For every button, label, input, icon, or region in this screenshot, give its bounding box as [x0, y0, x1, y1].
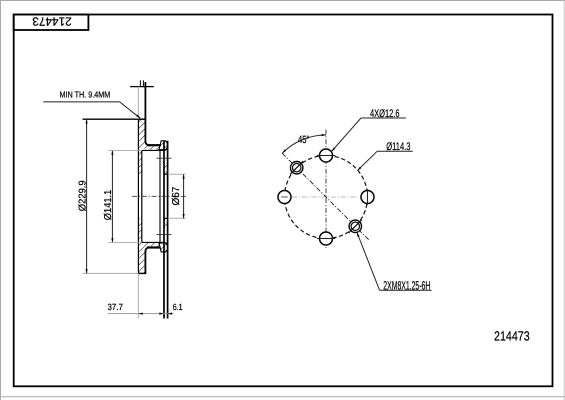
svg-text:214473: 214473	[494, 328, 530, 343]
svg-text:MIN TH. 9.4MM: MIN TH. 9.4MM	[60, 90, 111, 100]
threaded hole upper-left	[291, 162, 303, 174]
MIN TH leader	[43, 102, 140, 118]
threaded hole lower-right	[349, 220, 361, 232]
hat outer wall bottom	[147, 246, 161, 248]
extension gray bottom	[137, 273, 139, 318]
45 deg arc	[282, 135, 326, 153]
label dia 114.3	[377, 150, 413, 152]
outboard friction face	[137, 119, 139, 273]
bore top edge	[163, 173, 168, 175]
flange inner thick line	[163, 142, 165, 319]
svg-text:4XØ12.6: 4XØ12.6	[370, 108, 400, 120]
svg-text:6.1: 6.1	[173, 302, 183, 312]
svg-text:Ø67: Ø67	[171, 186, 182, 205]
flange bump bottom	[159, 243, 168, 252]
dia 141.1 dim line	[111, 150, 113, 242]
svg-text:Ø141.1: Ø141.1	[103, 189, 114, 220]
bolt hole centerline bottom	[157, 234, 172, 236]
vertical centerline	[325, 130, 327, 249]
diagonal centerline	[282, 153, 369, 240]
hatch web lower	[138, 218, 141, 246]
hatch web upper	[138, 147, 141, 175]
thickness dim line top	[130, 86, 154, 88]
hatch hat bottom wall	[145, 243, 161, 247]
bolt hole left	[278, 191, 291, 204]
tick 2	[142, 80, 144, 87]
fillet bottom	[145, 247, 149, 251]
horizontal centerline	[292, 196, 358, 198]
title box	[14, 15, 89, 31]
mounting face line	[167, 141, 169, 319]
tick 1	[139, 80, 141, 87]
disc bottom edge	[83, 272, 139, 274]
label 4X dia 12.6	[361, 117, 406, 119]
label 2XM8X1.25-6H	[380, 289, 432, 291]
dia 141.1 ext bottom	[108, 241, 142, 243]
hat inner wall bottom	[142, 241, 165, 243]
hat outer wall top	[147, 144, 161, 146]
bore bottom edge	[163, 217, 168, 219]
bolt circle dashed	[285, 156, 368, 239]
bolt hole right	[361, 191, 374, 204]
svg-text:Ø114.3: Ø114.3	[386, 141, 410, 153]
hatch hat top wall	[145, 146, 161, 150]
fillet top	[145, 142, 149, 146]
outer border	[0, 0, 565, 2]
bolt hole bottom	[320, 232, 333, 245]
axis centerline	[132, 195, 186, 197]
bolt hole centerline top	[157, 157, 172, 159]
hatch bottom friction band	[138, 246, 145, 273]
inboard friction face lower	[144, 250, 146, 273]
dia 141.1 ext top	[108, 149, 142, 151]
hat inner cylinder	[159, 150, 161, 242]
web inboard face	[141, 150, 143, 242]
svg-text:214473: 214473	[32, 14, 72, 28]
bolt hole top	[320, 149, 333, 162]
flange hatch below hole top	[163, 163, 167, 175]
inboard friction face upper	[144, 82, 146, 143]
svg-text:45°: 45°	[298, 134, 309, 146]
dia 67 dim line	[183, 174, 185, 218]
flange bump top	[159, 141, 168, 150]
dia 229.9 dim line	[86, 119, 88, 273]
extension gray top	[137, 87, 139, 120]
37.7 dim	[108, 313, 174, 315]
svg-text:2XM8X1.25-6H: 2XM8X1.25-6H	[383, 278, 430, 292]
flange hatch above hole bottom	[163, 218, 167, 230]
svg-text:37.7: 37.7	[108, 302, 123, 312]
hatch top friction band	[138, 119, 145, 146]
hat inner wall top	[142, 149, 165, 151]
svg-text:Ø229.9: Ø229.9	[77, 180, 88, 211]
disc top edge	[83, 118, 139, 120]
